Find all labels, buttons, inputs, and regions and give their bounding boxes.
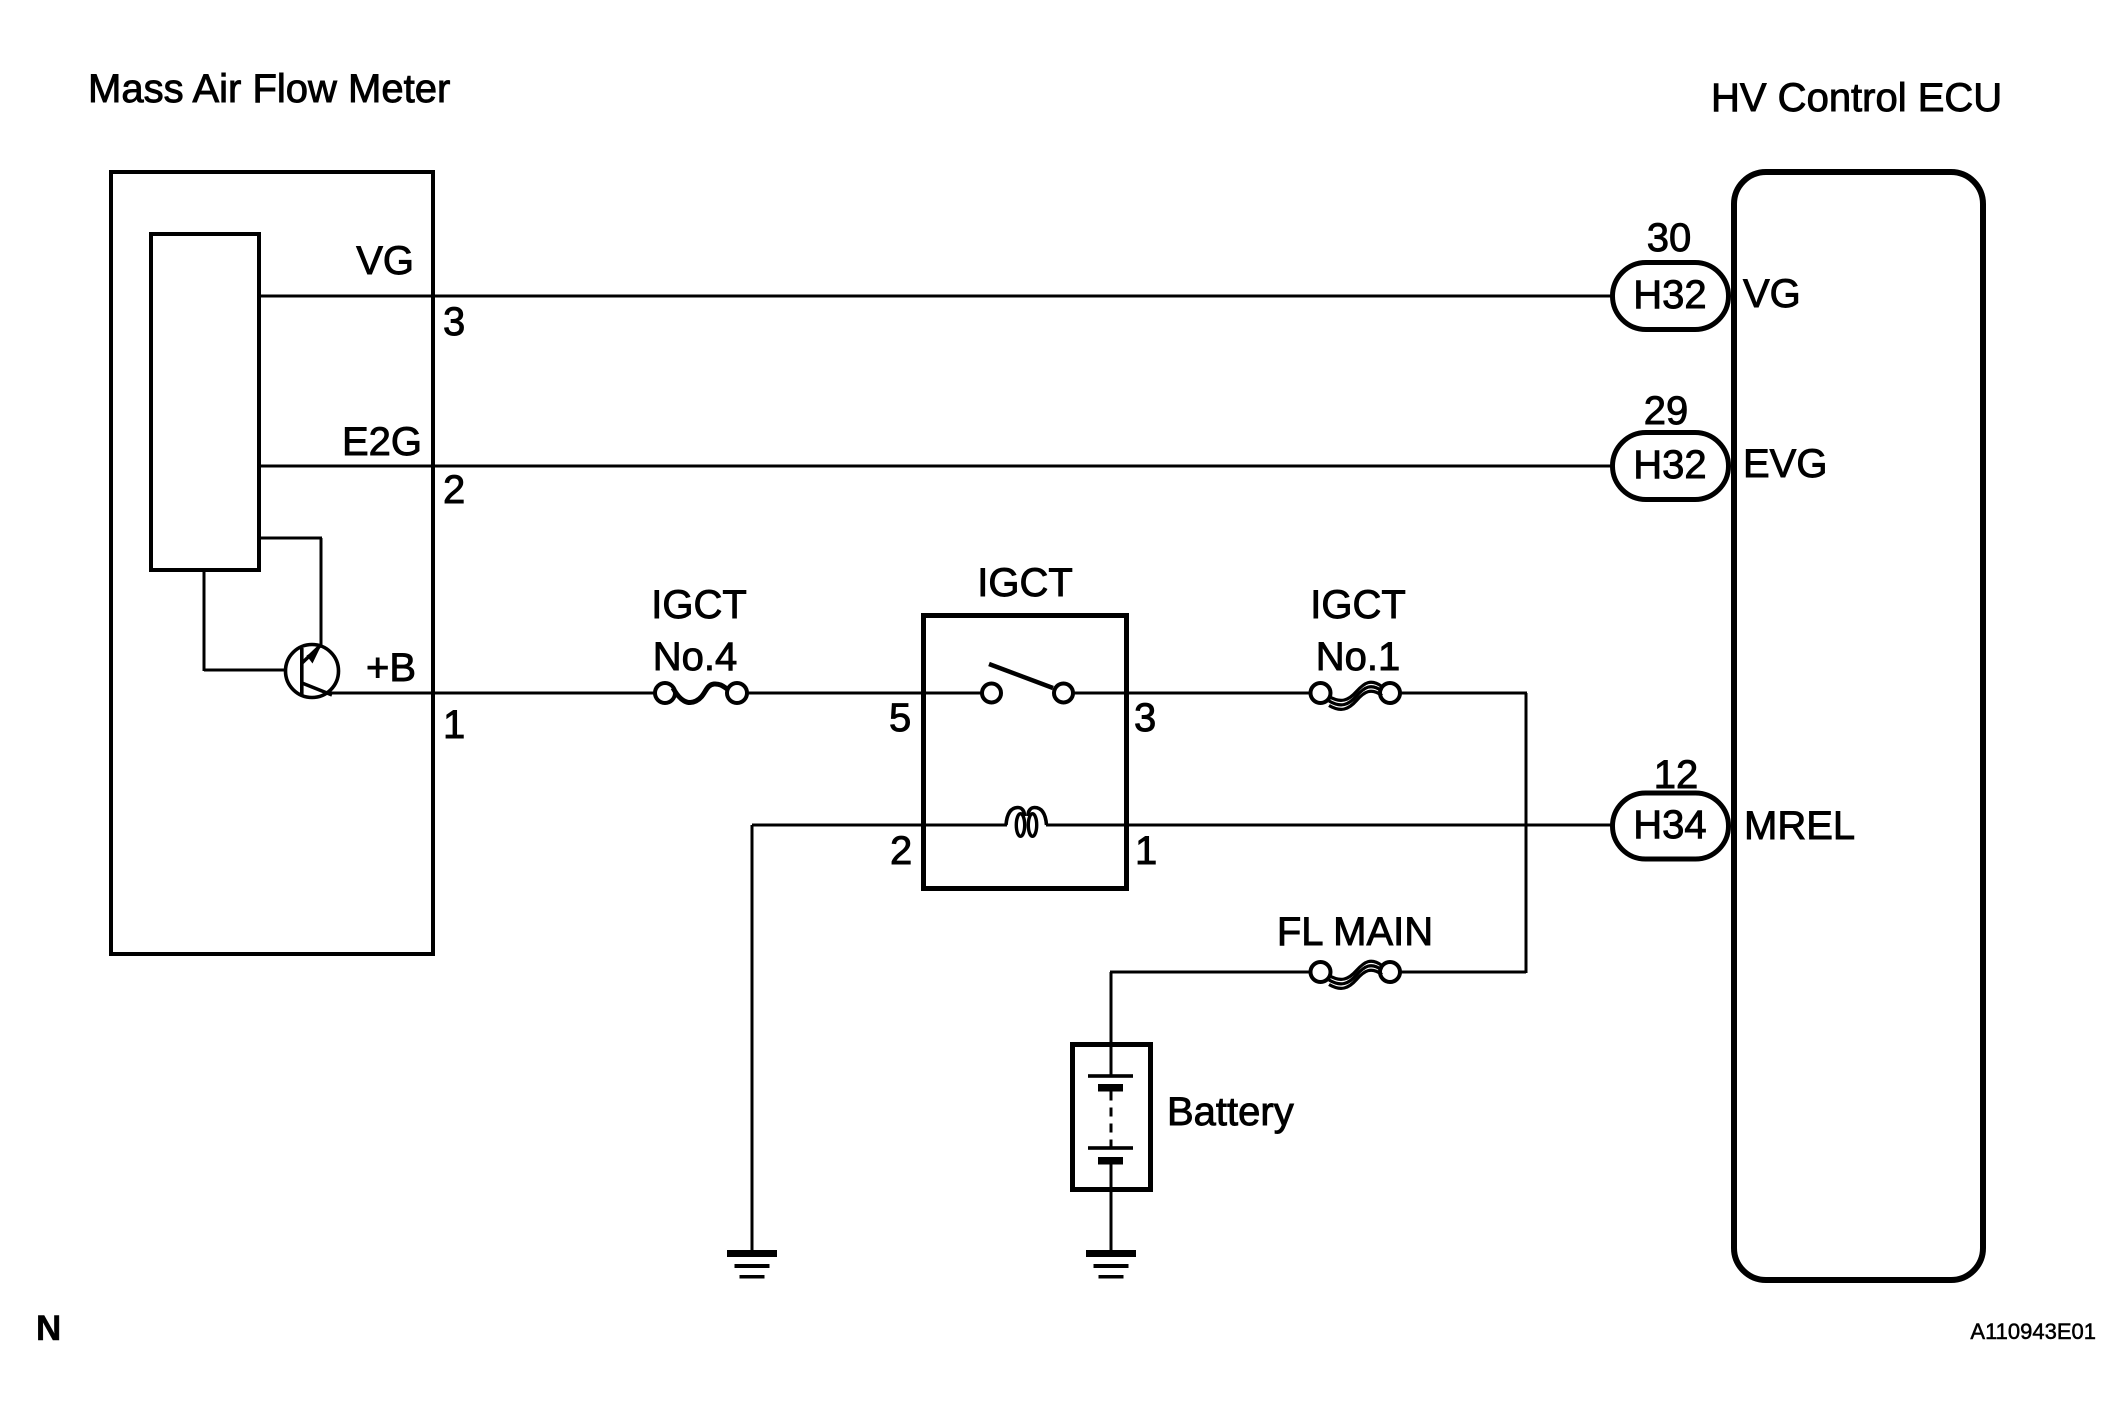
svg-text:EVG: EVG — [1743, 442, 1827, 486]
svg-text:H32: H32 — [1633, 443, 1706, 487]
svg-text:IGCT: IGCT — [651, 583, 747, 627]
svg-text:FL MAIN: FL MAIN — [1277, 910, 1433, 954]
svg-text:Mass Air Flow Meter: Mass Air Flow Meter — [88, 67, 450, 111]
svg-text:MREL: MREL — [1744, 804, 1855, 848]
svg-text:No.4: No.4 — [653, 635, 738, 679]
svg-text:VG: VG — [356, 239, 414, 283]
svg-text:N: N — [36, 1309, 61, 1348]
svg-text:H34: H34 — [1633, 803, 1706, 847]
svg-text:E2G: E2G — [342, 420, 422, 464]
svg-text:No.1: No.1 — [1316, 635, 1401, 679]
svg-text:1: 1 — [1135, 829, 1157, 873]
svg-text:12: 12 — [1654, 753, 1699, 797]
svg-text:H32: H32 — [1633, 273, 1706, 317]
svg-text:5: 5 — [889, 696, 911, 740]
svg-text:VG: VG — [1743, 272, 1801, 316]
svg-text:A110943E01: A110943E01 — [1970, 1319, 2096, 1344]
svg-text:IGCT: IGCT — [977, 561, 1073, 605]
svg-text:30: 30 — [1647, 216, 1692, 260]
svg-text:2: 2 — [890, 829, 912, 873]
svg-text:1: 1 — [443, 703, 465, 747]
svg-text:29: 29 — [1644, 389, 1689, 433]
svg-text:HV Control ECU: HV Control ECU — [1711, 76, 2002, 120]
svg-text:3: 3 — [443, 300, 465, 344]
svg-text:Battery: Battery — [1167, 1090, 1294, 1134]
svg-text:3: 3 — [1134, 696, 1156, 740]
svg-text:+B: +B — [366, 646, 416, 690]
svg-text:2: 2 — [443, 468, 465, 512]
svg-text:IGCT: IGCT — [1310, 583, 1406, 627]
